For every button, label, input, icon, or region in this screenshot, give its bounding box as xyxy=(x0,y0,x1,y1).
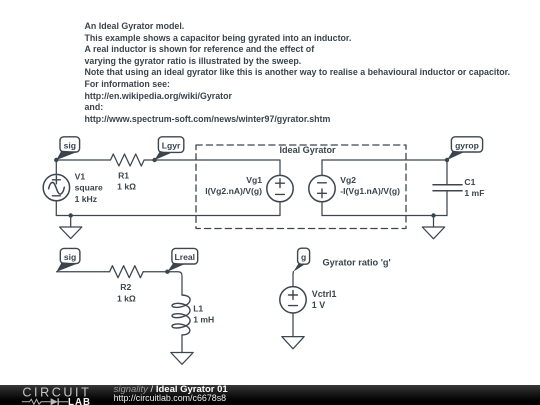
svg-text:L1: L1 xyxy=(193,304,203,314)
svg-text:R2: R2 xyxy=(120,282,131,292)
inductor L1 xyxy=(172,295,214,335)
resistor R1 xyxy=(111,154,145,192)
net flag Lgyr xyxy=(155,137,184,160)
wire Lreal corner to L1 xyxy=(167,272,182,295)
net flag Lreal xyxy=(167,248,197,271)
svg-text:Lgyr: Lgyr xyxy=(162,141,181,151)
wire Vg2 bottom lead xyxy=(321,202,323,216)
wire L1 to ground xyxy=(181,335,183,353)
wire V1 top lead xyxy=(55,160,57,174)
svg-text:gyrop: gyrop xyxy=(455,140,479,150)
svg-text:-I(Vg1.nA)/V(g): -I(Vg1.nA)/V(g) xyxy=(340,186,400,196)
node gyrop xyxy=(445,158,449,162)
CircuitLab logo xyxy=(20,386,96,405)
ground (L1) xyxy=(171,353,193,365)
ground (Vctrl1) xyxy=(282,337,304,349)
net flag g xyxy=(293,248,309,271)
svg-text:sig: sig xyxy=(64,140,76,150)
svg-text:1 mF: 1 mF xyxy=(464,188,484,198)
node ground junction left xyxy=(69,213,73,217)
node Lreal xyxy=(165,270,169,274)
wire Vg2 top lead xyxy=(321,160,323,175)
svg-text:Vg2: Vg2 xyxy=(340,175,356,185)
svg-text:V1: V1 xyxy=(75,171,86,181)
wire V1 bottom lead xyxy=(55,201,57,216)
wire Vg1 top lead xyxy=(279,160,281,175)
dependent source Vg1 xyxy=(205,175,293,202)
svg-text:LAB: LAB xyxy=(68,397,91,405)
svg-text:1 mH: 1 mH xyxy=(193,315,214,325)
voltage source Vctrl1 xyxy=(280,287,337,313)
svg-text:1 kHz: 1 kHz xyxy=(75,194,97,204)
wire sig to R1 xyxy=(56,159,110,161)
wire Vg1 bottom lead xyxy=(279,202,281,216)
wire Vctrl1 bottom lead xyxy=(292,313,294,337)
label gyrator ratio xyxy=(323,257,391,267)
svg-text:R1: R1 xyxy=(118,171,129,181)
resistor R2 xyxy=(110,266,144,304)
svg-text:1 kΩ: 1 kΩ xyxy=(117,182,136,192)
ideal gyrator dashed box xyxy=(196,145,406,229)
ground (left) xyxy=(60,216,82,239)
wire R2 to Lreal node xyxy=(143,271,167,273)
svg-text:1 V: 1 V xyxy=(312,300,325,310)
wire Lgyr to Vg1 xyxy=(155,159,280,161)
wire R1 to Lgyr node xyxy=(144,159,154,161)
node Lgyr xyxy=(152,158,156,162)
net flag sig (bottom) xyxy=(57,248,80,271)
wire top rail Vg2 to C1 xyxy=(322,159,447,161)
wire bottom rail left xyxy=(56,215,280,217)
svg-text:1 kΩ: 1 kΩ xyxy=(117,294,136,304)
svg-text:Gyrator ratio 'g': Gyrator ratio 'g' xyxy=(323,257,391,267)
svg-text:square: square xyxy=(75,183,103,193)
net flag gyrop xyxy=(447,137,483,160)
dependent source Vg2 xyxy=(309,175,400,202)
node sig junction xyxy=(54,158,58,162)
voltage source V1 xyxy=(43,171,103,204)
wire sig to R2 xyxy=(57,271,110,273)
svg-text:Vctrl1: Vctrl1 xyxy=(312,289,337,299)
svg-text:sig: sig xyxy=(64,252,76,262)
wire g to Vctrl1 xyxy=(292,272,294,287)
svg-text:g: g xyxy=(301,252,306,262)
node ground junction right xyxy=(431,213,435,217)
svg-text:Vg1: Vg1 xyxy=(246,175,262,185)
ground (right) xyxy=(422,216,444,239)
svg-text:Lreal: Lreal xyxy=(175,252,196,262)
net flag sig (top) xyxy=(56,137,79,160)
svg-text:C1: C1 xyxy=(464,177,475,187)
wire bottom rail right xyxy=(322,215,447,217)
capacitor C1 xyxy=(433,160,484,216)
svg-text:Ideal Gyrator: Ideal Gyrator xyxy=(279,145,336,155)
svg-text:I(Vg2.nA)/V(g): I(Vg2.nA)/V(g) xyxy=(205,186,262,196)
